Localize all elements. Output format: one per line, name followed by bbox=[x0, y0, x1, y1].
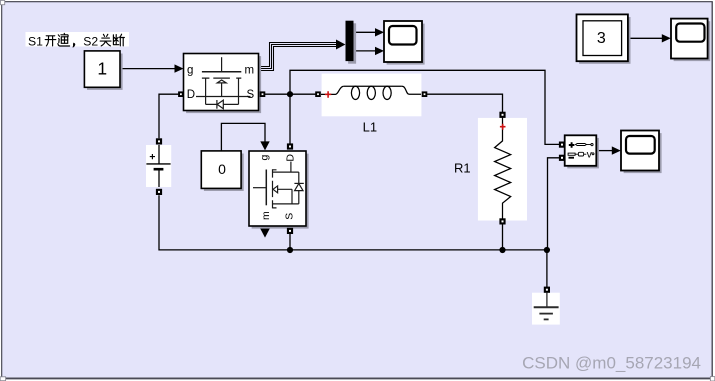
svg-text:L1: L1 bbox=[363, 119, 377, 134]
svg-text:D: D bbox=[285, 154, 297, 162]
svg-text:0: 0 bbox=[218, 161, 226, 177]
svg-text:1: 1 bbox=[97, 59, 107, 79]
svg-text:3: 3 bbox=[597, 30, 606, 47]
svg-text:S2: S2 bbox=[83, 34, 98, 48]
svg-text:S: S bbox=[284, 213, 296, 220]
svg-text:CSDN @m0_58723194: CSDN @m0_58723194 bbox=[522, 353, 701, 372]
svg-text:m: m bbox=[260, 211, 272, 220]
svg-text:R1: R1 bbox=[454, 161, 471, 176]
svg-text:S1: S1 bbox=[28, 34, 43, 48]
svg-text:v: v bbox=[587, 149, 593, 161]
svg-text:m: m bbox=[245, 64, 255, 76]
svg-text:g: g bbox=[187, 64, 193, 76]
svg-text:g: g bbox=[258, 155, 270, 161]
svg-text:S: S bbox=[247, 89, 255, 101]
svg-text:D: D bbox=[187, 89, 195, 101]
